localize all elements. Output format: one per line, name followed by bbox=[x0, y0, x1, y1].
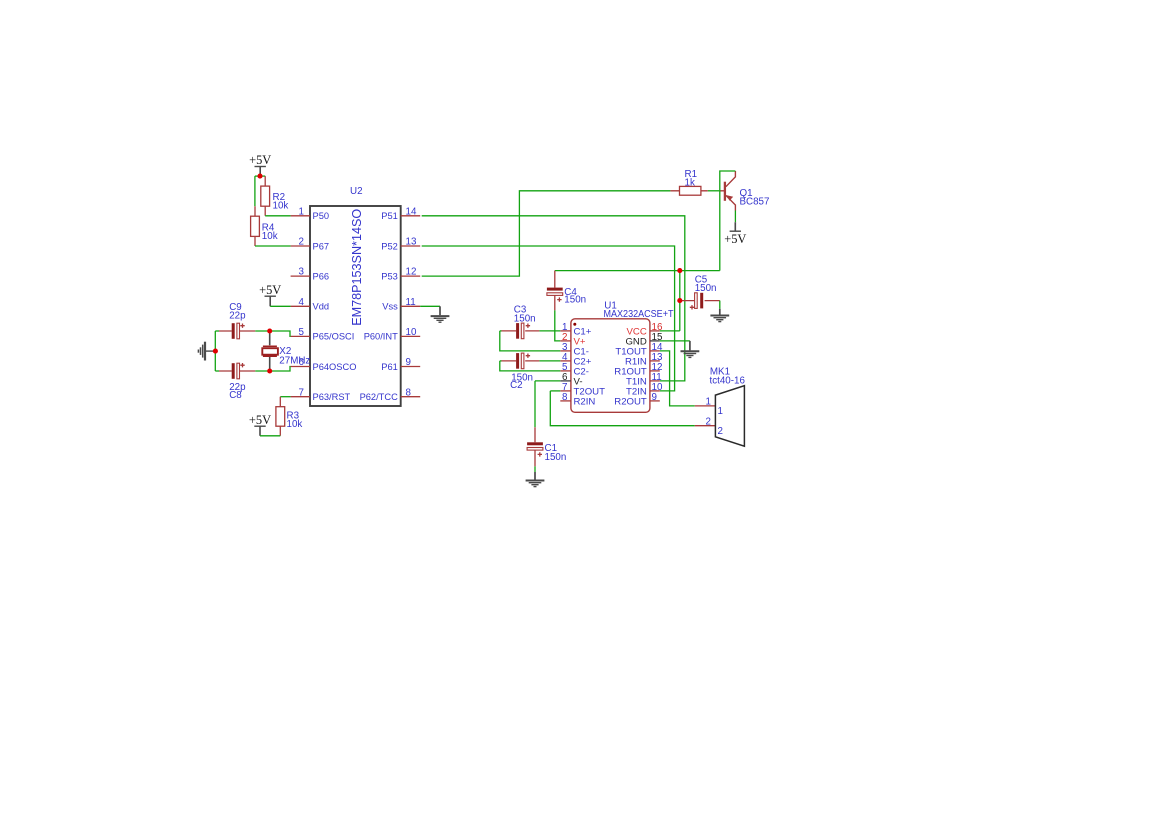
wire net VCC pin horizontal bbox=[660, 330, 680, 332]
U1 pin 11 T1IN bbox=[650, 380, 660, 382]
+5V supply Vdd bbox=[259, 283, 281, 306]
svg-text:2: 2 bbox=[706, 416, 711, 427]
wire net R4 to P67 bbox=[255, 245, 291, 247]
svg-text:+5V: +5V bbox=[249, 413, 271, 427]
svg-text:22p: 22p bbox=[229, 310, 246, 321]
wire net T2OUT to MK1 pin2 bbox=[550, 391, 695, 426]
+5V supply Q1 emitter bbox=[724, 222, 746, 246]
svg-text:150n: 150n bbox=[514, 313, 536, 324]
svg-text:8: 8 bbox=[562, 392, 568, 403]
capacitor C2 bbox=[502, 353, 540, 391]
U1 pin 12 R1OUT bbox=[650, 370, 660, 372]
capacitor C9 bbox=[219, 302, 255, 339]
wire net Vss to ground bbox=[420, 305, 440, 307]
wire net R3 to P63/RST bbox=[280, 396, 290, 398]
junction X2 bottom node bbox=[267, 368, 272, 373]
junction X2 top node bbox=[267, 328, 272, 333]
ground left (oscillator) bbox=[198, 342, 213, 361]
U1 pin 3 C1- bbox=[560, 350, 571, 352]
wire net C2 left stub bbox=[500, 360, 502, 362]
U2 pin 12 P53 bbox=[401, 275, 421, 277]
wire net V- horizontal bbox=[535, 380, 560, 382]
wire net C9-C8 left vertical bbox=[214, 331, 216, 371]
U2 pin 3 P66 bbox=[291, 275, 310, 277]
svg-text:150n: 150n bbox=[564, 295, 586, 306]
wire net GND pin horizontal bbox=[660, 340, 690, 342]
wire net VCC vertical drop bbox=[679, 271, 681, 331]
svg-text:+5V: +5V bbox=[259, 283, 281, 297]
svg-text:P63/RST: P63/RST bbox=[313, 392, 351, 402]
wire net C2 to C2+ bbox=[539, 360, 560, 362]
wire net T1OUT to MK1 pin1 bbox=[660, 351, 695, 406]
junction VCC rail node bbox=[677, 268, 682, 273]
capacitor C8 bbox=[219, 363, 255, 401]
U1 pin 13 R1IN bbox=[650, 360, 660, 362]
U1 pin 14 T1OUT bbox=[650, 350, 660, 352]
svg-text:12: 12 bbox=[406, 267, 417, 278]
svg-text:9: 9 bbox=[652, 392, 657, 403]
U2 pin 9 P61 bbox=[401, 366, 421, 368]
svg-text:10k: 10k bbox=[262, 231, 278, 242]
resistor R2 bbox=[261, 176, 289, 216]
U2 pin 7 P63/RST bbox=[291, 396, 310, 398]
capacitor C5 bbox=[682, 274, 720, 309]
U2 pin 6 P64OSCO bbox=[291, 366, 310, 368]
svg-text:13: 13 bbox=[406, 237, 417, 248]
U1 pin 5 C2- bbox=[560, 370, 571, 372]
svg-text:MAX232ACSE+T: MAX232ACSE+T bbox=[604, 309, 674, 320]
wire net C4 to V+ bbox=[555, 310, 561, 341]
wire net C9/X2 to P65/OSCI bbox=[255, 331, 290, 336]
wire net C3 to C1- bbox=[500, 331, 561, 351]
U2 pin 11 Vss bbox=[401, 305, 421, 307]
wire net P53 to R1 bbox=[422, 191, 671, 276]
svg-text:R2IN: R2IN bbox=[574, 397, 596, 408]
U1 pin 7 T2OUT bbox=[560, 390, 571, 392]
U1 pin 9 R2OUT bbox=[650, 400, 660, 402]
svg-text:C8: C8 bbox=[229, 390, 242, 401]
wire R4 upper net bbox=[254, 176, 256, 206]
svg-text:+5V: +5V bbox=[724, 232, 746, 246]
svg-text:+5V: +5V bbox=[249, 153, 271, 167]
wire net C5 to ground bbox=[719, 301, 721, 309]
wire net +5V to R3 bbox=[260, 435, 280, 437]
U2 pin 13 P52 bbox=[401, 245, 421, 247]
svg-text:9: 9 bbox=[406, 357, 411, 368]
U2 pin 14 P51 bbox=[401, 215, 421, 217]
resistor R4 bbox=[251, 206, 278, 246]
U1 pin 1 C1+ bbox=[560, 330, 571, 332]
svg-text:R2OUT: R2OUT bbox=[614, 397, 647, 408]
svg-text:EM78P153SN*14SO: EM78P153SN*14SO bbox=[350, 209, 364, 326]
ground at C5 bbox=[710, 309, 729, 322]
svg-text:1: 1 bbox=[299, 206, 304, 217]
svg-text:P53: P53 bbox=[381, 271, 398, 281]
svg-text:1: 1 bbox=[718, 406, 723, 417]
U1 pin 8 R2IN bbox=[560, 400, 571, 402]
svg-text:P67: P67 bbox=[313, 241, 330, 251]
transducer MK1 tct40-16 bbox=[695, 367, 746, 447]
wire net VCC rail horizontal bbox=[555, 270, 720, 272]
U2 pin 10 P60/INT bbox=[401, 335, 421, 337]
crystal X2 bbox=[262, 331, 310, 371]
wire net C1 to ground bbox=[534, 466, 536, 472]
U1 pin 6 V- bbox=[560, 380, 571, 382]
U1 pin 10 T2IN bbox=[650, 390, 660, 392]
wire net Q1 emitter to +5V bbox=[734, 211, 736, 223]
svg-text:2: 2 bbox=[299, 237, 304, 248]
svg-text:10k: 10k bbox=[273, 200, 289, 211]
svg-text:tct40-16: tct40-16 bbox=[710, 375, 746, 386]
ground at U1 GND bbox=[681, 341, 700, 358]
svg-text:3: 3 bbox=[299, 267, 305, 278]
transistor Q1 BC857 bbox=[725, 171, 770, 211]
resistor R3 bbox=[276, 397, 302, 436]
svg-text:1k: 1k bbox=[685, 177, 695, 188]
wire net V- down to C1 bbox=[534, 381, 536, 427]
svg-text:P60/INT: P60/INT bbox=[364, 332, 398, 342]
wire net C8 left stub bbox=[215, 370, 219, 372]
U1 pin 16 VCC bbox=[650, 330, 660, 332]
wire net R1 to Q1 base bbox=[708, 190, 720, 192]
wire net R2 to P50 bbox=[265, 215, 290, 217]
wire net C8/X2 to P64OSCO bbox=[255, 367, 290, 372]
capacitor C4 bbox=[547, 271, 586, 311]
wire net T2OUT stub bbox=[550, 390, 560, 392]
svg-text:U2: U2 bbox=[350, 186, 363, 197]
svg-text:BC857: BC857 bbox=[740, 197, 770, 208]
wire net +5V to Vdd bbox=[270, 305, 290, 307]
wire net Q1 collector to VCC rail bbox=[720, 171, 736, 271]
wire net C3 to C1+ bbox=[539, 330, 560, 332]
U2 pin 1 P50 bbox=[291, 215, 310, 217]
svg-text:150n: 150n bbox=[545, 452, 567, 463]
ground at C1 bbox=[526, 472, 545, 487]
ground at Vss bbox=[431, 306, 450, 322]
svg-text:P64OSCO: P64OSCO bbox=[313, 362, 357, 372]
wire net P52 to T2IN bbox=[422, 246, 675, 391]
svg-text:C2: C2 bbox=[510, 380, 523, 391]
svg-text:P52: P52 bbox=[381, 241, 398, 251]
wire net P51 to T1IN bbox=[422, 216, 685, 381]
wire net C2 to C2- bbox=[500, 361, 561, 371]
U2 pin 5 P65/OSCI bbox=[291, 335, 310, 337]
U1 pin 15 GND bbox=[650, 340, 660, 342]
wire top +5V node horizontal bbox=[255, 175, 265, 177]
+5V supply R3 supply bbox=[249, 413, 271, 436]
capacitor C3 bbox=[502, 304, 540, 338]
svg-text:1: 1 bbox=[706, 397, 711, 408]
+5V supply top (R2/R4) bbox=[249, 153, 271, 174]
svg-text:P50: P50 bbox=[313, 211, 330, 221]
U1 pin 2 V+ bbox=[560, 340, 571, 342]
junction oscillator ground node bbox=[213, 349, 218, 354]
U2 pin 8 P62/TCC bbox=[401, 396, 421, 398]
svg-text:P66: P66 bbox=[313, 271, 330, 281]
capacitor C1 bbox=[527, 427, 566, 466]
wire net C9 left stub bbox=[215, 330, 219, 332]
svg-text:P62/TCC: P62/TCC bbox=[360, 392, 399, 402]
junction top +5V node bbox=[257, 174, 262, 179]
svg-text:10k: 10k bbox=[287, 419, 303, 430]
IC U1 MAX232ACSE+T bbox=[560, 300, 673, 412]
svg-text:7: 7 bbox=[299, 387, 304, 398]
svg-text:2: 2 bbox=[718, 426, 723, 437]
resistor R1 bbox=[670, 169, 724, 195]
svg-text:150n: 150n bbox=[695, 283, 717, 294]
IC U2 EM78P153SN*14SO bbox=[291, 186, 421, 406]
junction C5 node bbox=[677, 298, 682, 303]
U2 pin 2 P67 bbox=[291, 245, 310, 247]
svg-text:8: 8 bbox=[406, 387, 412, 398]
svg-text:11: 11 bbox=[406, 297, 416, 308]
svg-text:4: 4 bbox=[299, 297, 305, 308]
svg-text:14: 14 bbox=[406, 206, 417, 217]
svg-text:Vss: Vss bbox=[382, 302, 398, 312]
svg-text:P61: P61 bbox=[381, 362, 398, 372]
svg-text:27MHz: 27MHz bbox=[279, 356, 310, 367]
svg-text:P51: P51 bbox=[381, 211, 398, 221]
svg-text:10: 10 bbox=[406, 327, 417, 338]
svg-text:P65/OSCI: P65/OSCI bbox=[313, 332, 355, 342]
wire net C3 left stub bbox=[500, 330, 502, 332]
svg-text:Vdd: Vdd bbox=[313, 302, 330, 312]
svg-text:5: 5 bbox=[299, 327, 305, 338]
U1 pin 4 C2+ bbox=[560, 360, 571, 362]
U2 pin 4 Vdd bbox=[291, 305, 310, 307]
